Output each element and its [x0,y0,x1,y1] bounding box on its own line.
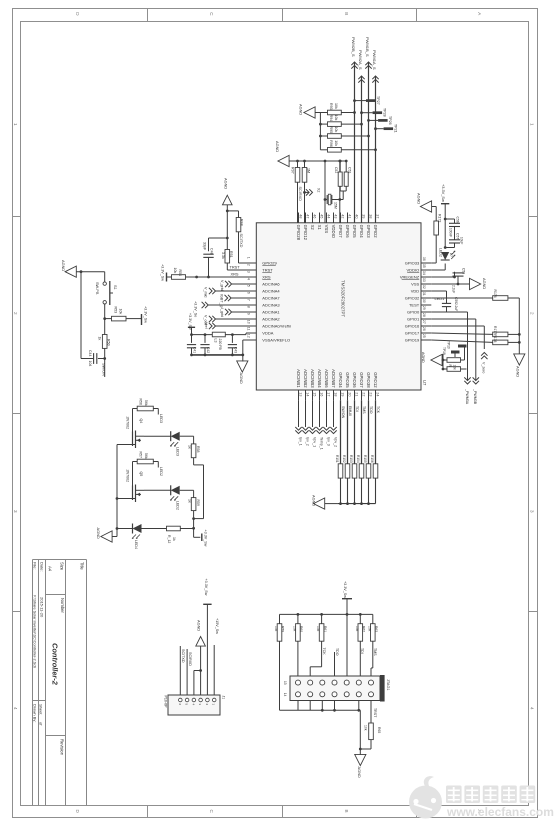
svg-text:10uF: 10uF [460,237,464,244]
net label LED1 on GPIO32 pin 31 [435,296,445,301]
svg-text:2: 2 [13,312,18,315]
svg-text:R51: R51 [229,251,233,258]
IC U7 bottom pins 13-24 stubs and numbers [298,390,379,400]
svg-text:SCITXD: SCITXD [181,649,185,663]
svg-text:R61: R61 [323,626,327,632]
power +3.3V_Sw to P10 pin 2 [203,579,211,696]
test point TP27 on column 1 [353,96,380,105]
svg-text:C58: C58 [462,268,466,274]
svg-text:R63: R63 [374,626,378,632]
wire S1 to node SW/ON [103,304,106,320]
resistor R59 10k JTAG pull [274,624,285,642]
IC U7 TMS320F28027PT body [256,223,421,390]
svg-text:C52: C52 [334,167,338,173]
svg-text:56k: 56k [144,453,148,459]
wire LED3 branch return rail [192,458,203,520]
svg-text:TRST: TRST [373,708,377,718]
svg-text:AGND: AGND [421,352,425,363]
svg-text:Date:: Date: [40,562,45,572]
resistor R12 1k LED4 [167,526,194,543]
svg-text:GPIO19: GPIO19 [405,338,420,343]
svg-text:47: 47 [305,214,309,218]
svg-text:R177: R177 [493,326,497,334]
wires GPIO pins 19-24 JTAG nets with labels [341,400,381,464]
wires JTAG bottom pins to ground rail [280,701,361,750]
svg-text:1: 1 [530,123,535,126]
svg-text:LED4: LED4 [134,540,138,549]
net label TCK [322,648,326,656]
svg-text:C41: C41 [193,347,197,353]
title block label File and value [33,562,38,668]
resistor R63 10k JTAG pull [367,624,378,642]
svg-text:TP27: TP27 [376,96,380,105]
svg-text:48: 48 [298,214,302,218]
resistor R57 56k Q5 gate [133,452,159,486]
svg-text:ADCINB4: ADCINB4 [317,369,322,388]
svg-text:20: 20 [347,392,351,396]
svg-text:R104: R104 [356,455,360,463]
wire VSS pin 33 to AGND [431,276,469,286]
svg-text:Title: Title [80,562,85,570]
svg-text:2: 2 [530,312,535,315]
title block label Number [60,598,65,613]
svg-text:3: 3 [530,510,535,513]
net connector V_out to ADC pin 9 [204,315,247,325]
svg-text:R102: R102 [342,455,346,463]
resistor R65 10k TRST pulldown [360,701,381,750]
svg-text:104: 104 [88,361,92,367]
svg-text:TMS: TMS [362,406,366,414]
svg-text:GPIO32: GPIO32 [405,296,420,301]
capacitor C52 20pF [334,161,342,191]
svg-text:GPIO2: GPIO2 [373,225,378,239]
svg-text:GPIO4: GPIO4 [359,225,364,239]
svg-text:X2: X2 [310,225,315,231]
svg-text:X2: X2 [317,188,321,192]
title block value A4 [48,566,53,572]
svg-text:XRS: XRS [231,271,239,276]
svg-text:PWM1A_S: PWM1A_S [372,50,377,70]
resistor R54 10k XRS pullup [172,268,247,280]
svg-text:43: 43 [333,214,337,218]
resistor R60 10k JTAG pull [293,614,304,641]
svg-text:Ipv_2: Ipv_2 [306,437,310,446]
connector P10-6P reference labels [163,696,225,709]
svg-text:ADCINB1: ADCINB1 [296,369,301,388]
svg-text:JTAG1: JTAG1 [386,679,390,691]
ground AGND for PWM pulldown resistors [299,104,316,118]
svg-text:10k: 10k [334,115,338,121]
svg-text:GPIO1: GPIO1 [407,317,420,322]
svg-text:ADCINA6: ADCINA6 [262,282,280,287]
test point TP28 on column 2 [360,108,386,117]
resistors R101-R106 pulldowns on JTAG nets [335,455,378,504]
svg-text:R58: R58 [196,446,200,452]
svg-text:Vpv_2: Vpv_2 [334,437,338,447]
svg-text:GPIO35: GPIO35 [345,372,350,388]
connector P10-6P header J1 [168,695,220,715]
net connector +3.3V_Se to ADC pin 7 [194,301,247,317]
svg-text:1: 1 [246,257,250,259]
capacitor C58 2.2uF on VDD [452,268,466,293]
IC U7 reference designator U7 [422,380,427,386]
svg-text:1k: 1k [172,537,176,541]
net label XRS [231,271,239,276]
svg-text:8: 8 [246,306,250,308]
svg-text:GPIO7: GPIO7 [338,225,343,239]
net label TDO [335,648,339,656]
svg-text:P10-6P: P10-6P [163,696,167,709]
wires P10 pins 3 and 4 to AGND [194,669,202,695]
capacitor C56 100nF [445,217,460,240]
net label SW/ON wire [102,359,106,378]
svg-text:17: 17 [326,392,330,396]
svg-text:LED2: LED2 [159,467,163,476]
wire AGND rail to pulldown resistors [315,113,327,150]
resistor R56 56k Q4 gate [133,399,159,432]
capacitor C57 10uF [445,233,463,248]
wire LED block ground rail [112,445,118,537]
svg-text:+3.3V_Sw: +3.3V_Sw [441,184,446,202]
wire R59 column down past connector [279,641,281,710]
IC U7 right pin names GPIO33 VDDIO VREGENZ VSS VDD GPIO [400,261,420,343]
svg-text:56k: 56k [144,400,148,406]
ground AGND below VSSA [237,355,248,384]
svg-text:VSSA/VREFLO: VSSA/VREFLO [262,338,290,343]
svg-text:3.3k: 3.3k [221,252,225,259]
svg-text:AGND: AGND [275,141,280,152]
elecfans watermark url text [446,805,554,819]
svg-text:R97: R97 [291,167,295,174]
svg-text:L7: L7 [449,253,453,257]
wire TCK to connector pin [310,641,321,676]
ground AGND for crystal circuit [275,141,289,167]
test point TP21 on column 4 [374,124,397,133]
svg-text:Revision: Revision [60,739,65,756]
svg-text:R50: R50 [106,339,110,346]
wire JTAG pulldown ground rail [325,502,376,505]
test point TP19 [458,345,467,348]
resistor R39 10k [442,354,461,371]
svg-text:10k: 10k [334,127,338,133]
ground AGND above P10 [196,620,206,671]
svg-text:4: 4 [13,707,18,710]
net connector _PWM3A [464,377,470,404]
svg-text:Number: Number [60,598,65,613]
svg-text:ADCINA7: ADCINA7 [262,296,280,301]
svg-text:22: 22 [361,392,365,396]
frame zone letters bottom (D C B A) [75,810,482,814]
svg-text:R95: R95 [329,127,333,134]
svg-text:2.2uF: 2.2uF [454,303,458,311]
svg-text:19: 19 [340,392,344,396]
svg-text:6: 6 [246,292,250,294]
svg-text:R101: R101 [335,455,339,463]
svg-text:32: 32 [422,285,426,289]
wire EPWM column 3 from pin 38 [368,62,370,223]
wire TDO stub to connector pin [329,652,340,678]
resistor R178 on GPIO19 pin 25 [431,334,520,344]
resistor R53 10k pullup on switch [105,307,138,321]
svg-text:PWM2A_S: PWM2A_S [358,50,363,70]
svg-text:11: 11 [246,327,250,331]
resistor R59 1k LED2 [187,490,200,510]
svg-text:C43: C43 [233,347,237,353]
svg-text:30: 30 [422,299,426,303]
svg-text:V_zero: V_zero [482,362,486,373]
power +3.3V_Sw JTAG [342,581,352,614]
svg-text:SCIRXD: SCIRXD [298,187,302,202]
svg-text:C57: C57 [456,233,460,239]
svg-text:Vref: Vref [204,322,208,330]
net label LED2 gate net [159,467,163,476]
net connectors ADCINB pins 13-18 with net labels [295,400,337,449]
svg-text:TP19: TP19 [447,341,451,349]
svg-text:VDDIO: VDDIO [407,268,420,273]
LED LED3 [144,431,194,456]
wire 3.3V column to connector pin [346,614,348,676]
wire AGND to C48 top rail [209,237,229,252]
svg-text:33: 33 [422,278,426,282]
svg-text:Drawn By:: Drawn By: [33,704,38,722]
power +3.3V for VDDA filter [188,313,195,335]
svg-text:GPIO12: GPIO12 [373,372,378,388]
title block title text Controller-2 [51,643,60,686]
svg-text:23: 23 [368,392,372,396]
svg-text:R56: R56 [139,399,143,405]
title block label Sheet of [39,704,44,726]
test point TP26 on column 3 [367,116,392,125]
resistor R58 1k LED3 [187,436,200,457]
net label SCIRXD [298,187,302,202]
svg-text:GPIO37: GPIO37 [359,372,364,388]
svg-text:TCK: TCK [322,648,326,656]
svg-text:13: 13 [298,392,302,396]
svg-text:Q5: Q5 [139,472,143,477]
net label TRST at JTAG [373,708,377,718]
wire VSSA ground rail [190,354,244,357]
svg-text:XRS: XRS [262,275,271,280]
svg-text:100nF: 100nF [448,228,452,237]
svg-text:V_mid: V_mid [204,287,208,297]
svg-text:+3.3V_Sw: +3.3V_Sw [161,264,165,281]
svg-text:VSS: VSS [324,225,329,234]
svg-text:AGND: AGND [224,178,229,189]
svg-text:SCITXD: SCITXD [239,234,243,248]
connector JTAG1 2x7 header [290,675,385,702]
svg-text:10k: 10k [316,626,320,632]
frame zone numbers right (1 2 3 4) [530,123,535,710]
svg-text:ADCINA1: ADCINA1 [262,310,280,315]
power +3.3V_Sw LED block [194,528,208,546]
test point TP18 with label [442,341,460,355]
wire JTAG pullup rail [280,613,373,624]
svg-text:S1: S1 [113,285,117,290]
resistor R51 3.3k TRST pulldown [221,238,233,270]
title block label Date and value [40,562,45,618]
connector JTAG1 pin numbers 13 14 [283,681,287,697]
svg-text:R60: R60 [299,626,303,632]
svg-text:C48: C48 [210,248,214,255]
svg-text:10k: 10k [364,725,368,731]
net connector PWM1B_S [365,37,372,69]
ground AGND right rail [514,354,525,378]
svg-text:ADCINA0/Vrefhi: ADCINA0/Vrefhi [262,324,291,329]
net connector I_grid to ADC pin 8 [220,308,246,317]
svg-text:10k: 10k [334,140,338,146]
svg-text:10k: 10k [453,365,457,371]
net label TDI [360,648,364,654]
wire GPIO16 pin 27 to V_zero connector [431,326,484,349]
net connector PWM2A_S [358,50,365,83]
svg-text:+3.3V_Sw: +3.3V_Sw [143,306,147,323]
svg-text:ADCINB6: ADCINB6 [324,369,329,388]
svg-text:ADCINB2: ADCINB2 [303,369,308,388]
capacitor C43 1uF VDDA [228,335,238,355]
ground AGND at VSS right [470,278,488,290]
transistor Q5 2N7002 MOSFET [126,470,145,503]
svg-text:26: 26 [422,327,426,331]
svg-text:7: 7 [246,299,250,301]
svg-text:TDI: TDI [355,406,359,412]
svg-text:AGND: AGND [299,104,304,115]
connector JTAG1 reference label [386,679,390,691]
svg-text:Temp_1: Temp_1 [320,437,324,450]
wire VDDA rail [190,333,246,336]
svg-text:V_grid: V_grid [220,280,224,291]
svg-text:24: 24 [375,392,379,396]
IC U7 right pins 36-25 stubs and numbers [421,257,431,340]
capacitor C53 20pF [339,160,352,200]
resistor R62 10k JTAG pull [355,614,366,641]
svg-text:R178: R178 [493,334,497,342]
wire EPWM column 2 from pin 39 [361,76,363,223]
svg-text:2: 2 [246,264,250,266]
IC U7 part number label TMS320F28027PT [341,280,346,317]
wire TDI to connector pin [359,641,361,676]
svg-text:10k: 10k [355,626,359,632]
svg-text:IGBT_tp: IGBT_tp [220,294,224,308]
svg-text:GPIO5: GPIO5 [352,225,357,239]
svg-text:TMS: TMS [373,648,377,656]
svg-text:46: 46 [312,214,316,218]
svg-text:TMS320F28027PT: TMS320F28027PT [341,280,346,317]
title block grid lines [33,560,87,806]
resistor R50 1k [98,319,111,359]
svg-text:9: 9 [246,313,250,315]
resistor R96 10k pulldown EPWM [328,140,377,152]
svg-text:1k: 1k [187,445,191,449]
svg-text:16: 16 [319,392,323,396]
svg-text:Controller-2: Controller-2 [51,643,60,686]
svg-text:10k: 10k [274,626,278,632]
svg-text:34: 34 [422,271,426,275]
svg-text:GPIO6: GPIO6 [345,225,350,239]
svg-text:R93: R93 [329,103,333,110]
svg-text:VSS: VSS [411,282,419,287]
svg-text:R96: R96 [329,140,333,147]
svg-text:3: 3 [13,510,18,513]
net connector PWM1A_S [372,50,379,83]
net connector V_mid to ADC pin 5 [204,287,247,297]
wire R40 R39 right ends to test points [447,348,467,370]
svg-text:C44: C44 [88,350,92,356]
wire right pulldown rail to AGND [518,298,520,354]
svg-text:TRST: TRST [262,268,273,273]
svg-text:R65: R65 [377,727,381,733]
wire pin 12 VSSA/VREFLO to ground rail [243,340,246,355]
wire EPWM column 4 from pin 37 [375,76,377,223]
svg-text:R48: R48 [240,219,244,226]
svg-text:Size: Size [60,562,65,571]
ground AGND for R173 [417,193,432,212]
net connector IGBT_tp to ADC pin 6 [220,294,247,308]
net connector V_zero [481,353,487,374]
wire crystal X2 column [324,161,326,223]
svg-text:AGND: AGND [417,193,422,204]
capacitor C42 100nF VDDA [200,335,210,355]
svg-text:35: 35 [422,264,426,268]
svg-text:1: 1 [13,123,18,126]
svg-text:ADCINA3: ADCINA3 [262,303,280,308]
wire AGND node to R48 and TRST pulldown column [226,210,239,239]
svg-text:10k: 10k [293,626,297,632]
svg-text:3: 3 [246,271,250,273]
svg-text:2.2uF: 2.2uF [452,285,456,293]
svg-text:TP28: TP28 [383,108,387,117]
net label TMS [373,648,377,656]
resistor R95 10k pulldown EPWM [328,127,370,139]
resistor R173 GPIO33 pulldown [431,207,441,264]
svg-text:R_12: R_12 [167,535,171,543]
svg-text:AGND: AGND [357,767,362,778]
svg-text:R57: R57 [139,452,143,458]
net connector V_grid to ADC pin 4 [220,280,246,291]
svg-text:Vpv_1: Vpv_1 [313,437,317,447]
svg-text:13: 13 [283,681,287,685]
svg-text:10: 10 [246,320,250,324]
svg-text:_PWM3B: _PWM3B [473,388,477,405]
svg-text:F:\Share Solar Inverter\SC\Con: F:\Share Solar Inverter\SC\Controller-2.… [33,595,37,668]
svg-text:1k: 1k [187,499,191,503]
ground AGND LED block [96,528,112,543]
svg-text:LED2: LED2 [439,248,443,257]
svg-text:14: 14 [283,693,287,697]
power +3.3V_Sw right block [441,184,450,219]
resistor R48 series SCITXD [236,218,243,232]
svg-text:SW/ON: SW/ON [102,363,106,376]
svg-text:+15V_Sw: +15V_Sw [215,618,219,634]
IC U7 left pins 1-12 stubs and numbers [246,257,256,340]
wire R48 to pin 1 GPIO29 SCITXD [239,232,247,263]
svg-text:SW/ON: SW/ON [341,406,345,419]
svg-text:GPIO34: GPIO34 [338,372,343,388]
svg-text:+3.3V_Sw: +3.3V_Sw [204,530,208,547]
svg-text:C42: C42 [206,347,210,353]
svg-text:X1: X1 [317,225,322,231]
svg-text:42: 42 [340,214,344,218]
resistor R94 10k pulldown EPWM [328,115,363,127]
net label LED3 gate net [159,414,163,423]
svg-text:GPIO29: GPIO29 [262,261,277,266]
IC U7 top pin names GPIO28 X2 X1 VSS VDDIO [296,225,378,241]
svg-text:TP18: TP18 [442,347,446,355]
svg-text:2N7002: 2N7002 [126,417,130,430]
svg-text:+3.3V_Sw: +3.3V_Sw [343,581,347,598]
ground AGND above R48 [223,178,233,211]
IC U7 bottom pin names ADCINB GPIO [296,369,378,388]
wire LED2 branch to bottom node [192,511,195,530]
